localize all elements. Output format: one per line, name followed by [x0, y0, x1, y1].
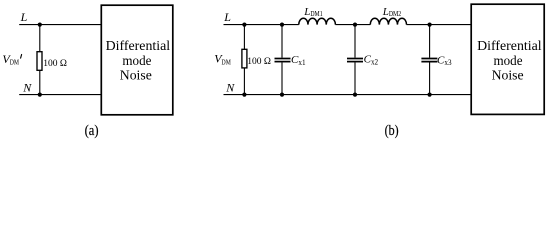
capacitor Cx3 lower lead [429, 62, 431, 94]
resistor 100 ohm (a) [37, 52, 42, 71]
svg-text:Differential: Differential [477, 39, 542, 54]
capacitor Cx1 upper lead [281, 25, 283, 58]
capacitor Cx1 plates [275, 59, 291, 62]
wire bottom (b) [224, 94, 472, 96]
junction dot top Cx1 (b) [280, 23, 284, 27]
svg-text:N: N [22, 80, 32, 94]
junction dot bottom resistor (b) [242, 93, 246, 97]
box differential mode noise (a) [101, 5, 173, 115]
wire resistor lower lead (a) [39, 70, 41, 94]
wire mid segment (b) [335, 24, 370, 26]
wire top (a) [19, 24, 101, 26]
svg-text:Differential: Differential [106, 39, 171, 54]
wire top-right segment (b) [407, 24, 472, 26]
capacitor Cx3 plates [421, 59, 437, 62]
junction dot top Cx2 (b) [353, 23, 357, 27]
label differential mode noise (b) [477, 39, 542, 84]
junction dot top resistor (b) [242, 23, 246, 27]
svg-text:N: N [225, 80, 235, 94]
svg-text:L: L [223, 10, 231, 24]
svg-text:Noise: Noise [120, 69, 152, 84]
junction dot bottom Cx2 (b) [353, 93, 357, 97]
label differential mode noise (a) [106, 39, 171, 84]
svg-text:mode: mode [122, 54, 151, 69]
wire bottom (a) [19, 94, 101, 96]
junction dot bottom Cx1 (b) [280, 93, 284, 97]
svg-text:(b): (b) [385, 123, 399, 139]
inductor LDM1 [299, 18, 336, 24]
svg-text:mode: mode [494, 54, 523, 69]
capacitor Cx3 upper lead [429, 25, 431, 58]
junction dot top (a) [38, 23, 42, 27]
svg-text:L: L [20, 10, 28, 24]
capacitor Cx2 plates [347, 59, 363, 62]
svg-text:100 Ω: 100 Ω [247, 57, 271, 67]
junction dot top Cx3 (b) [428, 23, 432, 27]
wire resistor upper lead (b) [243, 25, 245, 50]
junction dot bottom (a) [38, 93, 42, 97]
wire resistor upper lead (a) [39, 25, 41, 52]
capacitor Cx2 upper lead [354, 25, 356, 58]
wire top-left segment (b) [224, 24, 299, 26]
svg-text:Noise: Noise [492, 69, 524, 84]
resistor 100 ohm (b) [242, 49, 247, 68]
svg-text:(a): (a) [85, 123, 99, 139]
capacitor Cx2 lower lead [354, 62, 356, 94]
box differential mode noise (b) [471, 4, 544, 114]
wire resistor lower lead (b) [243, 68, 245, 95]
svg-text:100 Ω: 100 Ω [43, 59, 67, 69]
capacitor Cx1 lower lead [281, 62, 283, 94]
junction dot bottom Cx3 (b) [428, 93, 432, 97]
prime mark of VDM' (a) [21, 55, 22, 59]
inductor LDM2 [370, 18, 406, 24]
